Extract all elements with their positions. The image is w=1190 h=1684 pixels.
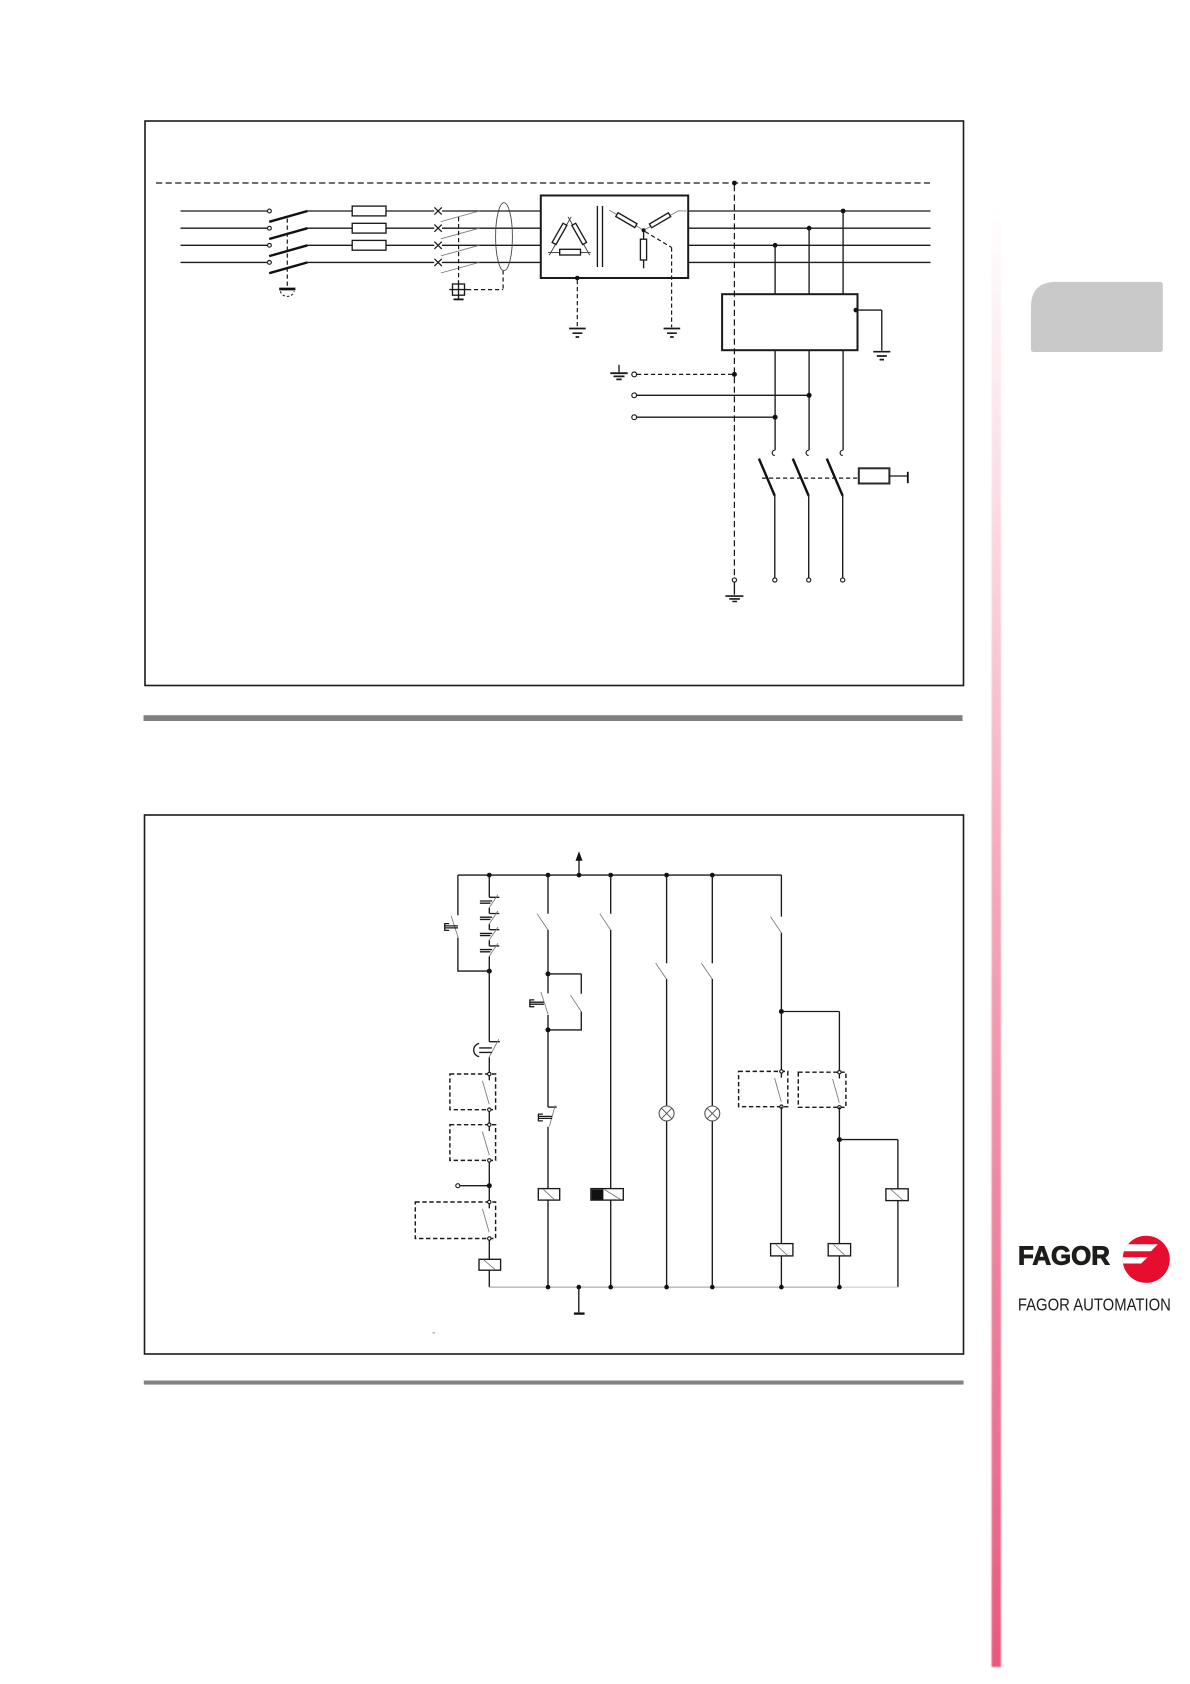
svg-text:FAGOR: FAGOR (1018, 1242, 1110, 1270)
svg-text:FAGOR AUTOMATION: FAGOR AUTOMATION (1018, 1294, 1171, 1314)
